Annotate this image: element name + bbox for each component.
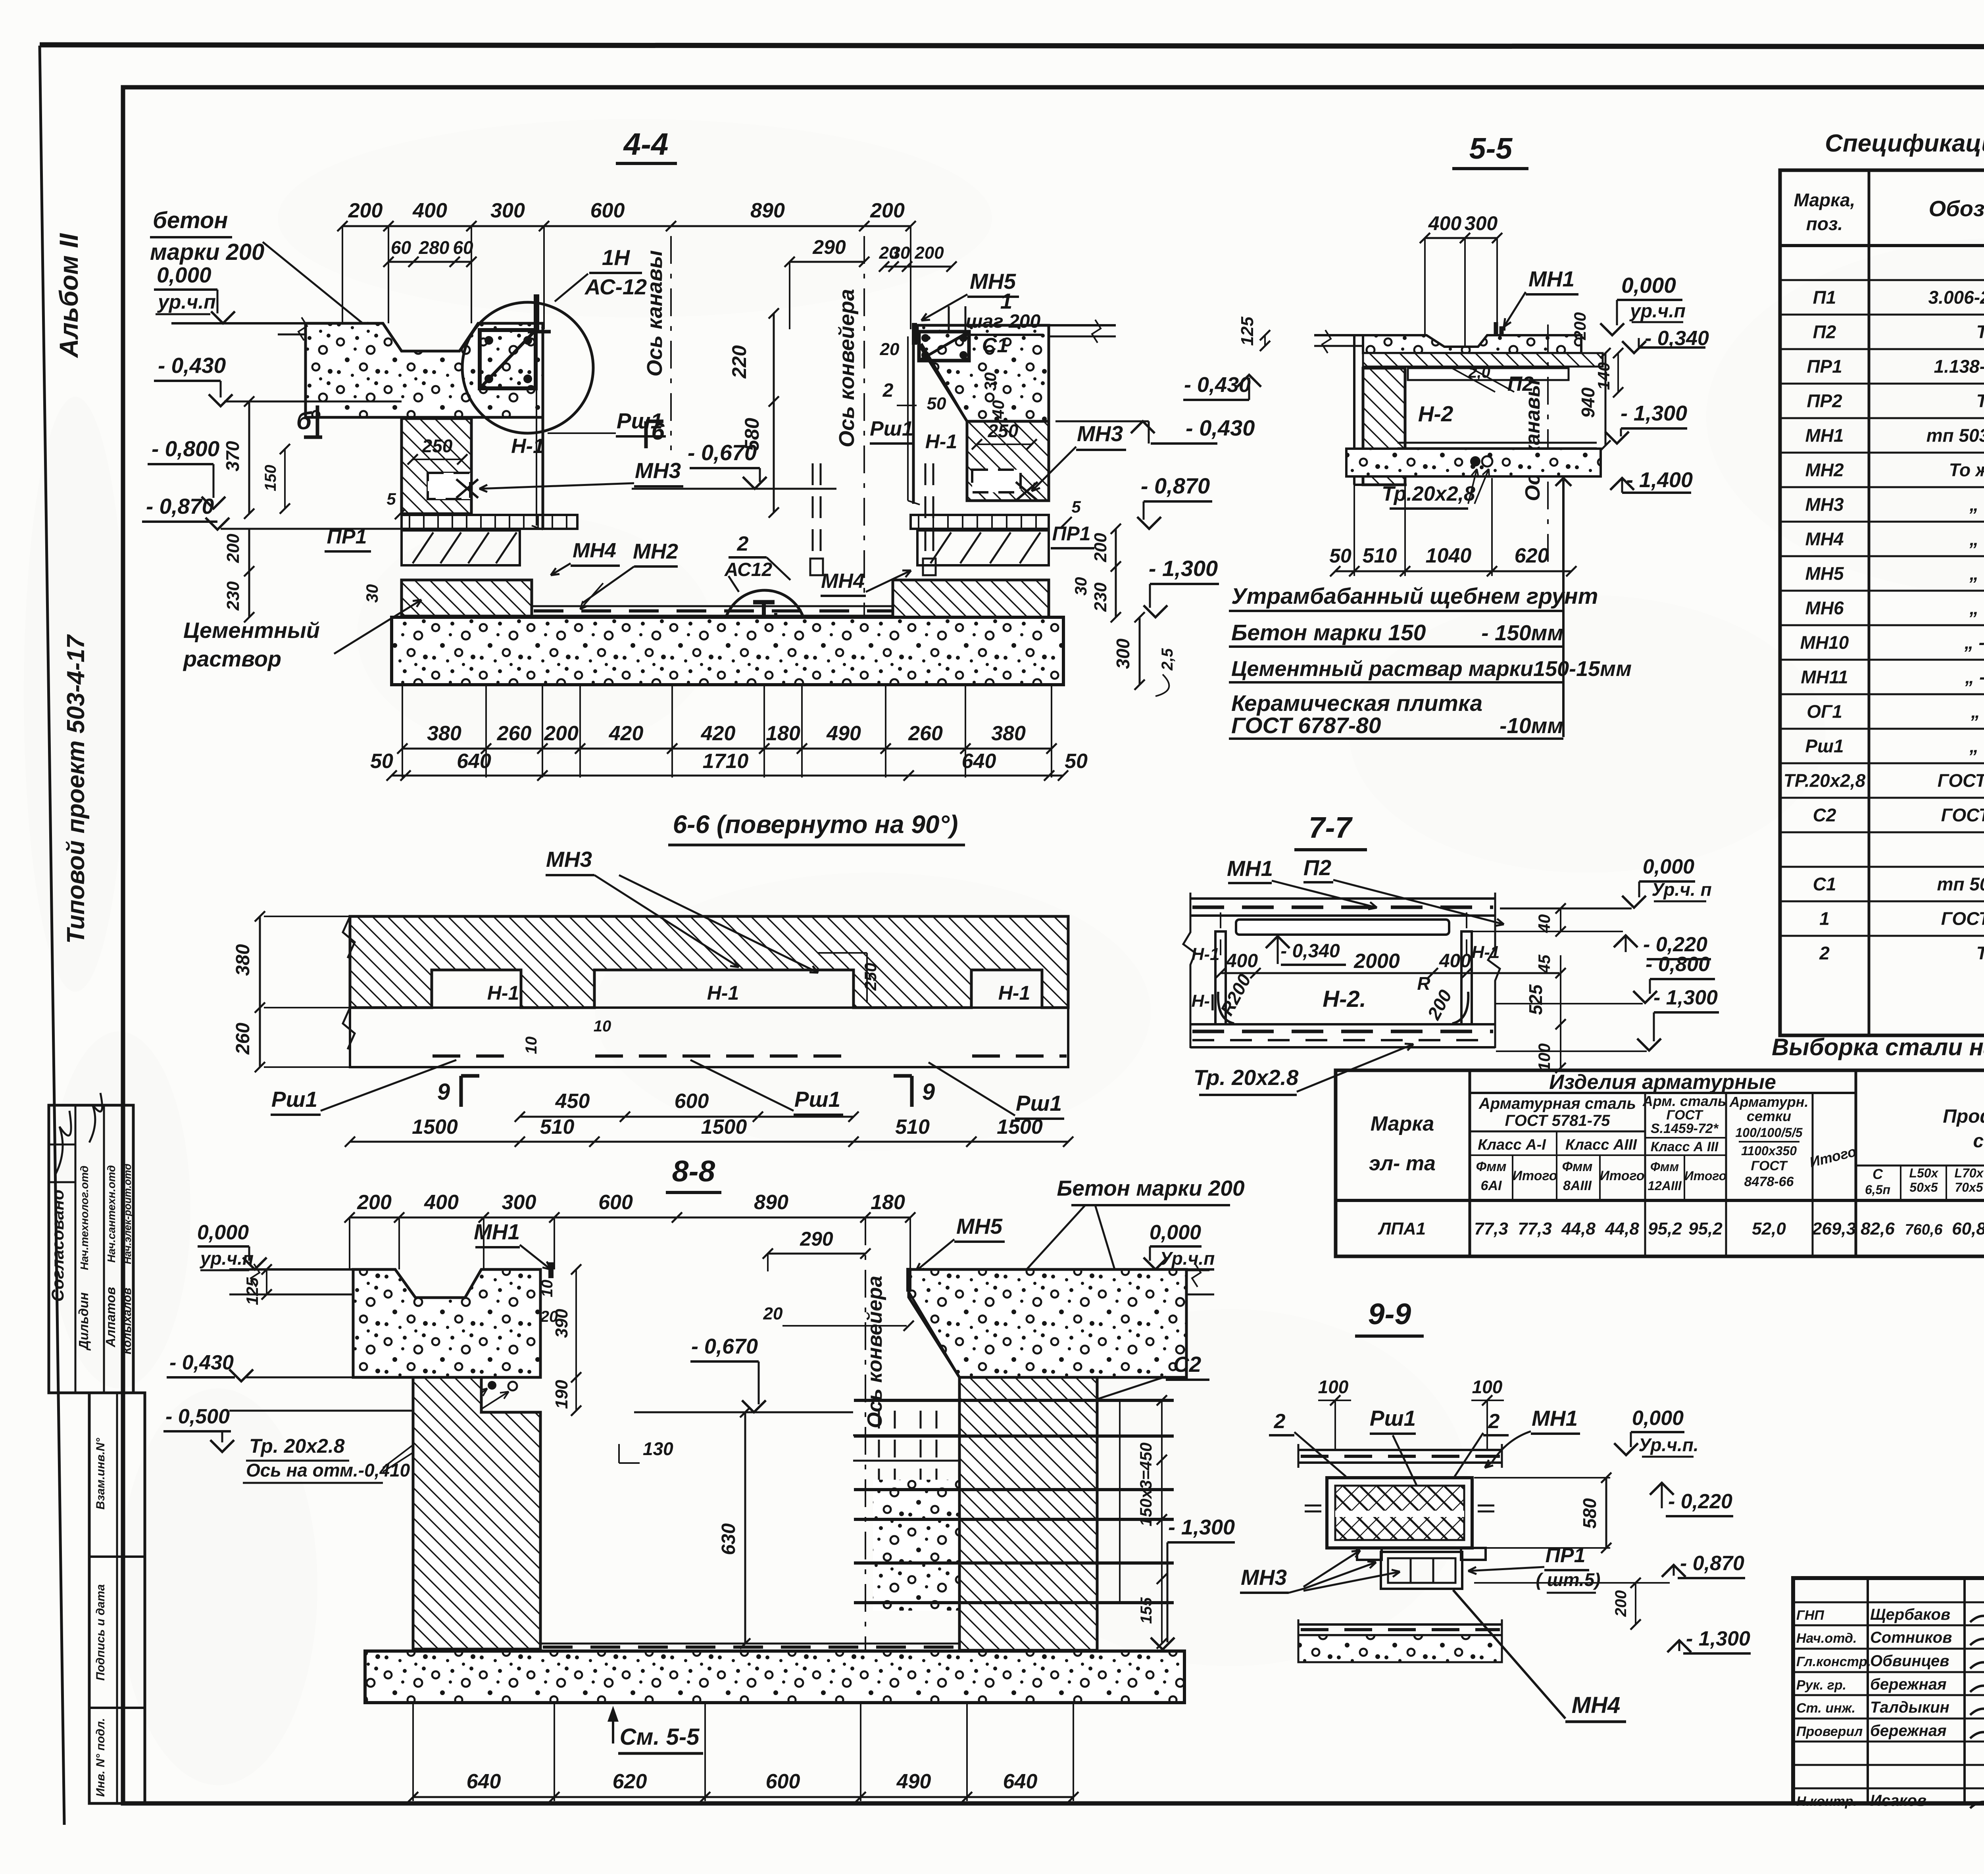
- svg-text:R: R: [1417, 973, 1430, 994]
- 9-9 corner angles: [1357, 1548, 1382, 1560]
- axis Ось конвейера 8-8: [865, 1217, 866, 1650]
- svg-text:„ - МН3: „ - МН3: [1969, 494, 1984, 515]
- svg-text:сетки: сетки: [1747, 1108, 1791, 1124]
- svg-text:5: 5: [1071, 497, 1081, 516]
- svg-text:620: 620: [613, 1770, 647, 1793]
- 4-4 sub-dims 20 30 200: [884, 266, 952, 268]
- svg-text:ПР1: ПР1: [1052, 522, 1090, 545]
- svg-text:Бетон марки 150: Бетон марки 150: [1231, 620, 1426, 645]
- svg-text:ПР1: ПР1: [1807, 356, 1842, 377]
- svg-text:То же: То же: [1976, 322, 1984, 342]
- 4-4 right concrete slab (stipple): [917, 325, 1049, 421]
- svg-text:ГОСТ 5781-75: ГОСТ 5781-75: [1941, 908, 1984, 929]
- svg-text:100: 100: [1318, 1377, 1349, 1397]
- 5-5 bottom dim row 50 510 1040 620: [1353, 485, 1355, 576]
- svg-text:9: 9: [437, 1079, 450, 1105]
- 4-4 sub-dim 290: [790, 261, 864, 263]
- svg-text:60: 60: [453, 237, 473, 258]
- vertical dim 300 right: [1139, 617, 1141, 685]
- svg-text:- 1,300: - 1,300: [1168, 1515, 1235, 1539]
- svg-text:МН11: МН11: [1801, 667, 1848, 687]
- svg-text:ЛПА1: ЛПА1: [1378, 1219, 1426, 1239]
- svg-text:Тр. 20х2.8: Тр. 20х2.8: [249, 1435, 345, 1457]
- 8-8 approach lines left: [229, 1268, 353, 1271]
- svg-text:Проверил: Проверил: [1796, 1724, 1863, 1739]
- МН3 dashed box right: [972, 470, 1021, 492]
- svg-text:Щербаков: Щербаков: [1870, 1606, 1950, 1623]
- svg-text:„ - МН10: „ - МН10: [1964, 632, 1984, 653]
- svg-text:4-4: 4-4: [623, 127, 669, 161]
- svg-text:МН5: МН5: [956, 1214, 1003, 1239]
- svg-text:10: 10: [523, 1037, 540, 1054]
- svg-text:95,2: 95,2: [1648, 1219, 1682, 1239]
- svg-text:Алпатов: Алпатов: [103, 1287, 118, 1348]
- svg-text:Инв. N° подл.: Инв. N° подл.: [94, 1718, 107, 1797]
- svg-text:Н-2.: Н-2.: [1323, 986, 1366, 1012]
- С1 rebar box right: [919, 332, 969, 361]
- svg-text:Итого: Итого: [1512, 1168, 1557, 1183]
- svg-text:МН4: МН4: [1572, 1692, 1620, 1718]
- svg-text:50: 50: [1329, 545, 1352, 567]
- svg-text:180: 180: [871, 1191, 905, 1214]
- svg-text:155: 155: [1138, 1597, 1155, 1624]
- svg-text:50: 50: [370, 750, 393, 773]
- svg-text:9: 9: [922, 1079, 935, 1105]
- level -0,430 right of 4-4: [1055, 421, 1149, 422]
- svg-text:200: 200: [1612, 1590, 1630, 1617]
- svg-text:640: 640: [1003, 1770, 1038, 1793]
- svg-text:П2: П2: [1303, 855, 1332, 880]
- dims 150х3=450 155 8-8: [1161, 1400, 1163, 1579]
- svg-text:1710: 1710: [703, 750, 749, 773]
- svg-text:МН3: МН3: [1077, 421, 1123, 446]
- svg-text:С2: С2: [1813, 805, 1836, 826]
- svg-text:450: 450: [555, 1090, 590, 1113]
- svg-text:45: 45: [1535, 954, 1553, 974]
- 5-5 pit floor lines: [1398, 442, 1597, 444]
- svg-text:Фмм: Фмм: [1562, 1159, 1593, 1174]
- svg-text:„ - Рш1: „ - Рш1: [1969, 736, 1984, 757]
- svg-text:МН5: МН5: [1805, 563, 1844, 584]
- lintel band right (ladder): [911, 515, 1049, 529]
- svg-text:150: 150: [262, 465, 279, 492]
- 9-9 base stipple: [1298, 1635, 1502, 1662]
- svg-text:Рш1: Рш1: [271, 1087, 317, 1112]
- 8-8 right wall hatched: [959, 1377, 1097, 1650]
- svg-text:30: 30: [981, 373, 1000, 391]
- svg-text:МН4: МН4: [573, 539, 616, 562]
- 9-9 bottom floor lines: [1298, 1623, 1502, 1626]
- svg-text:бережная: бережная: [1870, 1676, 1947, 1693]
- svg-text:220: 220: [728, 345, 750, 379]
- svg-text:1500: 1500: [997, 1116, 1043, 1139]
- svg-text:0,000: 0,000: [1643, 855, 1694, 878]
- svg-text:100/100/5/5: 100/100/5/5: [1735, 1125, 1803, 1140]
- svg-text:510: 510: [895, 1116, 930, 1139]
- svg-text:200: 200: [870, 199, 905, 222]
- svg-text:280: 280: [419, 237, 450, 258]
- 8-8 top dim row: [350, 1217, 910, 1219]
- svg-text:Керамическая плитка: Керамическая плитка: [1231, 691, 1482, 716]
- svg-text:АС12: АС12: [724, 559, 773, 580]
- svg-text:630: 630: [718, 1523, 739, 1555]
- Согласовано approval table: [49, 1105, 133, 1393]
- svg-text:Рук. гр.: Рук. гр.: [1796, 1678, 1846, 1693]
- svg-text:150х3=450: 150х3=450: [1136, 1442, 1155, 1526]
- svg-text:Подпись и дата: Подпись и дата: [94, 1584, 107, 1680]
- svg-text:См. 5-5: См. 5-5: [620, 1724, 700, 1750]
- svg-text:77,3: 77,3: [1474, 1219, 1508, 1239]
- 7-7 left break edge: [1183, 893, 1195, 1048]
- svg-text:Талдыкин: Талдыкин: [1870, 1699, 1949, 1716]
- svg-text:200: 200: [544, 722, 579, 745]
- svg-text:S.1459-72*: S.1459-72*: [1651, 1121, 1719, 1136]
- svg-text:2: 2: [1274, 1410, 1286, 1433]
- 4-4 sub-dims 60 280 60: [388, 261, 471, 263]
- П2 plank 5-5: [1408, 368, 1569, 380]
- svg-text:- 0,340: - 0,340: [1280, 941, 1340, 962]
- svg-text:82,6: 82,6: [1861, 1219, 1895, 1239]
- svg-text:10: 10: [594, 1018, 611, 1035]
- conveyor anchor bolts 8-8: [878, 1411, 880, 1480]
- svg-text:200: 200: [1571, 312, 1589, 340]
- svg-text:б: б: [296, 407, 312, 435]
- paper edge top: [40, 45, 1984, 47]
- svg-text:ГНП: ГНП: [1796, 1608, 1824, 1623]
- svg-text:640: 640: [457, 750, 491, 773]
- svg-text:- 1,300: - 1,300: [1621, 401, 1687, 425]
- svg-text:300: 300: [490, 199, 525, 222]
- svg-text:Альбом II: Альбом II: [54, 233, 83, 359]
- level -0,340 5-5: [1622, 341, 1646, 353]
- level -1,300 9-9: [1667, 1640, 1691, 1652]
- svg-text:125: 125: [1238, 317, 1257, 346]
- svg-text:20: 20: [880, 340, 900, 359]
- svg-text:400: 400: [412, 199, 447, 222]
- svg-text:МН2: МН2: [633, 540, 678, 563]
- svg-text:380: 380: [233, 944, 254, 976]
- corner angle МН5 right: [912, 323, 917, 345]
- Рш1 grates dashed in notches: [433, 1054, 520, 1058]
- vertical dims 200 230 left: [248, 529, 250, 571]
- svg-text:Н-1: Н-1: [707, 982, 739, 1004]
- equals marks 9-9: [1305, 1505, 1321, 1507]
- svg-text:50х5: 50х5: [1909, 1180, 1938, 1194]
- svg-text:490: 490: [896, 1770, 931, 1793]
- 4-4 left wall (hatched): [402, 419, 471, 514]
- svg-text:L70х: L70х: [1955, 1166, 1984, 1180]
- svg-text:760,6: 760,6: [1905, 1221, 1943, 1238]
- axis Ось канавы 5-5: [1547, 325, 1549, 571]
- svg-text:250: 250: [422, 436, 453, 456]
- detail balloon rail 2/АС12: [723, 590, 806, 673]
- vertical dim 150: [284, 449, 286, 509]
- svg-text:600: 600: [590, 199, 625, 222]
- svg-text:То же - МН2: То же - МН2: [1949, 460, 1984, 480]
- svg-text:Нач.технолог.отд: Нач.технолог.отд: [78, 1166, 90, 1270]
- svg-text:200: 200: [914, 243, 944, 263]
- svg-text:Выборка стали на один элем: Выборка стали на один элемент , кг: [1772, 1034, 1984, 1060]
- svg-text:100: 100: [1472, 1377, 1503, 1397]
- svg-text:Ур.ч. п: Ур.ч. п: [1651, 879, 1711, 900]
- svg-text:380: 380: [991, 722, 1026, 745]
- svg-text:„ - МН11: „ - МН11: [1965, 667, 1984, 687]
- svg-text:250: 250: [861, 963, 880, 991]
- right approach floor lines with break: [1049, 324, 1116, 326]
- svg-text:МН4: МН4: [821, 570, 865, 593]
- right slab inner diagonal edge: [921, 344, 967, 421]
- РШ1 grate right pit face: [912, 325, 915, 504]
- stamp boxes: Взам.инв.№ / Подпись и дата / Инв.№ подл.: [89, 1393, 145, 1803]
- photocopy tone blobs: [48, 1031, 190, 1388]
- svg-text:„ - МН5: „ - МН5: [1969, 563, 1984, 584]
- svg-text:40: 40: [1535, 914, 1553, 933]
- svg-text:ГОСТ 5781-75: ГОСТ 5781-75: [1505, 1112, 1611, 1129]
- axis Ось канавы: [670, 236, 672, 450]
- svg-text:Н-2: Н-2: [1418, 401, 1453, 426]
- svg-text:С: С: [1872, 1166, 1883, 1182]
- svg-text:300: 300: [1465, 212, 1498, 234]
- svg-text:1Н: 1Н: [602, 245, 631, 270]
- 7-7 right edge: [1488, 893, 1500, 1048]
- svg-text:20: 20: [763, 1304, 783, 1323]
- svg-text:П2: П2: [1813, 322, 1836, 342]
- 4-4 left concrete slab with channel groove (stipple): [306, 323, 543, 417]
- svg-text:эл- та: эл- та: [1369, 1152, 1436, 1175]
- svg-text:5-5: 5-5: [1469, 132, 1513, 165]
- svg-text:Бетон марки 200: Бетон марки 200: [1057, 1176, 1245, 1200]
- svg-text:200: 200: [357, 1191, 392, 1214]
- svg-text:Типовой проект 503-4-17: Типовой проект 503-4-17: [62, 634, 90, 944]
- level -0,220 9-9: [1650, 1483, 1674, 1495]
- svg-text:Рш1: Рш1: [794, 1087, 840, 1112]
- 8-8 left slab (stipple): [353, 1269, 540, 1377]
- МН3 embed dashed box left: [428, 473, 470, 499]
- svg-text:0,000: 0,000: [1632, 1407, 1684, 1430]
- svg-text:Арматурн.: Арматурн.: [1729, 1094, 1808, 1110]
- svg-text:10: 10: [538, 1280, 556, 1298]
- 5-5 slab (stipple) with groove: [1363, 335, 1581, 353]
- svg-text:ГОСТ 3262-75*: ГОСТ 3262-75*: [1938, 770, 1984, 791]
- svg-text:390: 390: [552, 1309, 571, 1338]
- svg-text:510: 510: [540, 1116, 575, 1139]
- svg-text:ГОСТ 8478-66: ГОСТ 8478-66: [1941, 805, 1984, 826]
- svg-text:Итого: Итого: [1600, 1168, 1644, 1183]
- svg-text:- 0,870: - 0,870: [1680, 1552, 1744, 1575]
- svg-text:- 0,430: - 0,430: [169, 1351, 234, 1374]
- svg-text:ГОСТ 6787-80: ГОСТ 6787-80: [1231, 713, 1381, 738]
- svg-text:МН6: МН6: [1805, 598, 1844, 618]
- svg-text:бережная: бережная: [1870, 1722, 1947, 1740]
- svg-text:125: 125: [243, 1277, 261, 1305]
- svg-text:L50х: L50х: [1909, 1166, 1939, 1180]
- 5-5 tile/mortar hatch strip: [1363, 353, 1603, 367]
- svg-text:МН1: МН1: [1805, 425, 1844, 446]
- svg-text:МН3: МН3: [635, 458, 681, 483]
- svg-text:510: 510: [1363, 544, 1397, 567]
- detail balloon 1H/АС-12: [462, 302, 593, 433]
- dim 290 8-8: [768, 1253, 865, 1255]
- svg-text:„ - МН6: „ - МН6: [1969, 598, 1984, 618]
- svg-text:- 0,670: - 0,670: [688, 440, 757, 465]
- svg-text:5: 5: [386, 490, 396, 508]
- svg-text:Фмм: Фмм: [1476, 1159, 1507, 1174]
- svg-text:бетон: бетон: [153, 207, 228, 233]
- svg-text:Сотников: Сотников: [1870, 1629, 1952, 1646]
- svg-text:640: 640: [962, 750, 996, 773]
- svg-text:Ст. инж.: Ст. инж.: [1796, 1701, 1855, 1716]
- svg-text:490: 490: [826, 722, 861, 745]
- svg-text:шаг 200: шаг 200: [966, 311, 1041, 332]
- svg-text:МН1: МН1: [1227, 856, 1273, 881]
- svg-text:600: 600: [766, 1770, 800, 1793]
- svg-text:940: 940: [1578, 387, 1598, 418]
- svg-text:МН3: МН3: [546, 847, 592, 872]
- svg-text:- 0,670: - 0,670: [691, 1335, 758, 1358]
- left approach floor lines with break: [278, 334, 306, 336]
- svg-text:Ось канавы: Ось канавы: [643, 250, 667, 377]
- svg-text:290: 290: [800, 1228, 833, 1250]
- svg-text:П1: П1: [1813, 287, 1836, 308]
- svg-text:тп 503- АС-С1: тп 503- АС-С1: [1937, 874, 1984, 895]
- svg-text:ГОСТ: ГОСТ: [1751, 1158, 1788, 1173]
- svg-text:2: 2: [882, 380, 894, 401]
- svg-text:АС-12: АС-12: [584, 275, 647, 299]
- svg-text:230: 230: [1091, 582, 1110, 612]
- svg-text:МН1: МН1: [1528, 267, 1575, 291]
- pit edge angle (left): [534, 294, 539, 331]
- svg-text:- 0,870: - 0,870: [146, 494, 214, 518]
- svg-text:- 1,300: - 1,300: [1653, 986, 1718, 1009]
- С2 mesh bars 8-8: [854, 1399, 1174, 1402]
- svg-text:Спецификация изделий на л: Спецификация изделий на линию поточную Л…: [1825, 130, 1984, 157]
- svg-text:230: 230: [223, 581, 243, 611]
- 8-8 left wall hatched: [413, 1377, 540, 1649]
- brick band left: [402, 530, 520, 565]
- 5-5 foundation mat: [1346, 449, 1601, 476]
- svg-text:Колыхалов: Колыхалов: [121, 1288, 134, 1354]
- svg-text:Дильдин: Дильдин: [76, 1292, 91, 1351]
- lower hatch band left: [402, 580, 532, 616]
- svg-text:- 1,300: - 1,300: [1149, 556, 1218, 581]
- svg-text:Марка: Марка: [1371, 1112, 1434, 1135]
- svg-text:3.006-2, вып. II-2: 3.006-2, вып. II-2: [1928, 287, 1984, 308]
- svg-text:Класс А-I: Класс А-I: [1478, 1137, 1546, 1153]
- svg-text:МН3: МН3: [1241, 1565, 1287, 1590]
- dim 940: [1605, 353, 1607, 445]
- svg-text:1500: 1500: [412, 1116, 458, 1139]
- svg-text:0,000: 0,000: [197, 1221, 249, 1244]
- РШ1 grate frame at left pit face: [542, 323, 544, 530]
- level -0,870 9-9: [1662, 1565, 1686, 1577]
- svg-text:200: 200: [348, 199, 383, 222]
- svg-text:Рш1: Рш1: [1805, 736, 1844, 757]
- svg-text:290: 290: [812, 236, 846, 258]
- svg-text:Итого: Итого: [1684, 1169, 1726, 1183]
- svg-text:260: 260: [497, 722, 532, 745]
- svg-text:180: 180: [766, 722, 800, 745]
- svg-text:8АIII: 8АIII: [1563, 1178, 1592, 1193]
- svg-text:-10мм: -10мм: [1500, 713, 1563, 738]
- svg-text:То же: То же: [1976, 391, 1984, 411]
- svg-text:370: 370: [222, 441, 243, 471]
- dim 250 6-6: [866, 953, 868, 1003]
- svg-text:380: 380: [427, 722, 461, 745]
- svg-text:890: 890: [750, 199, 785, 222]
- svg-text:2: 2: [1488, 1410, 1500, 1433]
- svg-text:Фмм: Фмм: [1650, 1160, 1679, 1174]
- svg-text:Н-|: Н-|: [1192, 991, 1215, 1011]
- svg-text:Н-1: Н-1: [925, 430, 957, 453]
- svg-text:30: 30: [363, 584, 381, 603]
- svg-text:ТР.20х2,8: ТР.20х2,8: [1784, 770, 1866, 791]
- svg-text:44,8: 44,8: [1561, 1219, 1596, 1239]
- svg-text:Н-1: Н-1: [1472, 943, 1500, 962]
- svg-text:- 1,400: - 1,400: [1626, 468, 1693, 492]
- svg-text:Н-1: Н-1: [998, 982, 1030, 1004]
- pit floor lines: [532, 605, 915, 607]
- 9-9 grate box: [1327, 1478, 1472, 1548]
- svg-text:Изделия арматурные: Изделия арматурные: [1549, 1071, 1776, 1094]
- svg-text:400: 400: [1226, 950, 1258, 972]
- svg-text:МН1: МН1: [1532, 1406, 1578, 1431]
- svg-text:ПР2: ПР2: [1807, 391, 1842, 411]
- svg-text:0,000: 0,000: [1150, 1221, 1201, 1244]
- 4-4 right wall (hatched): [967, 421, 1049, 501]
- svg-text:1100х350: 1100х350: [1741, 1144, 1797, 1158]
- 4-4 top dimension row 200 400 300 600 890 200: [342, 225, 911, 227]
- svg-text:- 0,800: - 0,800: [1646, 953, 1710, 976]
- svg-text:40: 40: [989, 400, 1007, 419]
- 4-4 bottom dim row 2: [392, 775, 1063, 777]
- left break edge 6-6: [343, 916, 355, 958]
- svg-text:Цементный: Цементный: [183, 618, 320, 643]
- svg-text:ПР1: ПР1: [1545, 1544, 1585, 1567]
- svg-text:95,2: 95,2: [1688, 1219, 1723, 1239]
- svg-text:Нач.отд.: Нач.отд.: [1796, 1631, 1857, 1646]
- svg-text:0,000: 0,000: [1621, 273, 1676, 298]
- svg-text:То же: То же: [1976, 943, 1984, 964]
- 8-8 pit floor: [540, 1643, 959, 1645]
- svg-text:Гл.констр.: Гл.констр.: [1796, 1654, 1871, 1669]
- title block signature grid: [1867, 1578, 1869, 1803]
- svg-text:Ось канавы: Ось канавы: [1521, 380, 1544, 501]
- svg-text:Профильная: Профильная: [1943, 1106, 1984, 1127]
- svg-text:525: 525: [1525, 984, 1546, 1015]
- svg-text:50: 50: [1065, 750, 1088, 773]
- svg-text:Ось конвейера: Ось конвейера: [835, 289, 859, 447]
- svg-text:Класс АIII: Класс АIII: [1565, 1137, 1638, 1153]
- svg-text:С2: С2: [1173, 1352, 1202, 1377]
- 5-5 left wall hatched: [1353, 335, 1355, 485]
- svg-text:640: 640: [467, 1770, 501, 1793]
- svg-text:Обозначение: Обозначение: [1929, 196, 1984, 221]
- svg-text:Арм. сталь: Арм. сталь: [1642, 1093, 1726, 1109]
- 5-5 top dims 400 300: [1425, 237, 1497, 239]
- svg-text:60,8: 60,8: [1952, 1219, 1984, 1239]
- vertical dim 220/580: [773, 313, 775, 513]
- 4-4 foundation mat (stipple): [392, 617, 1063, 685]
- МН1 edge angle black bar: [539, 1269, 542, 1377]
- svg-text:6АI: 6АI: [1481, 1178, 1502, 1193]
- 8-8 bottom dim row: [412, 1704, 414, 1801]
- label См.5-5: [608, 1706, 619, 1722]
- svg-text:1040: 1040: [1426, 544, 1472, 567]
- svg-text:Н-1: Н-1: [487, 982, 519, 1004]
- svg-text:поз.: поз.: [1806, 213, 1843, 234]
- paper edge left: [40, 46, 64, 1825]
- svg-text:70х5: 70х5: [1955, 1180, 1983, 1194]
